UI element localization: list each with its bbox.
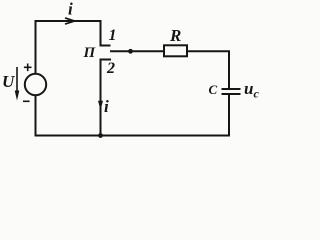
voltage source U circle (25, 74, 46, 95)
current arrow i (middle branch, pointing down) (98, 101, 103, 110)
capacitor C plates (222, 89, 241, 94)
voltage arrow for U (pointing down) (16, 67, 18, 92)
wire top (source to switch contact 1) (35, 20, 101, 22)
svg-text:2: 2 (106, 60, 115, 77)
svg-text:uc: uc (244, 79, 259, 101)
svg-text:1: 1 (109, 27, 117, 44)
svg-text:U: U (2, 72, 15, 91)
svg-text:i: i (104, 97, 109, 116)
switch contact 1 (101, 20, 111, 46)
svg-text:i: i (68, 0, 73, 19)
resistor R (164, 45, 187, 56)
wire bottom (35, 135, 231, 137)
minus sign (23, 100, 30, 102)
wire resistor to right corner (188, 51, 229, 89)
junction dot (branch 2 to bottom wire) (98, 133, 103, 138)
switch contact 2 (101, 60, 112, 137)
switch pivot dot (128, 49, 133, 54)
plus sign (24, 64, 32, 72)
current arrow i (top wire) (65, 18, 75, 24)
wire left upper (top wire down to source +) (35, 20, 37, 74)
wire left lower (source - to bottom wire) (35, 95, 37, 137)
switch arm wire (110, 50, 164, 52)
wire capacitor to bottom (228, 95, 230, 137)
svg-text:C: C (209, 82, 218, 97)
svg-text:П: П (83, 45, 97, 61)
svg-text:R: R (169, 26, 181, 45)
